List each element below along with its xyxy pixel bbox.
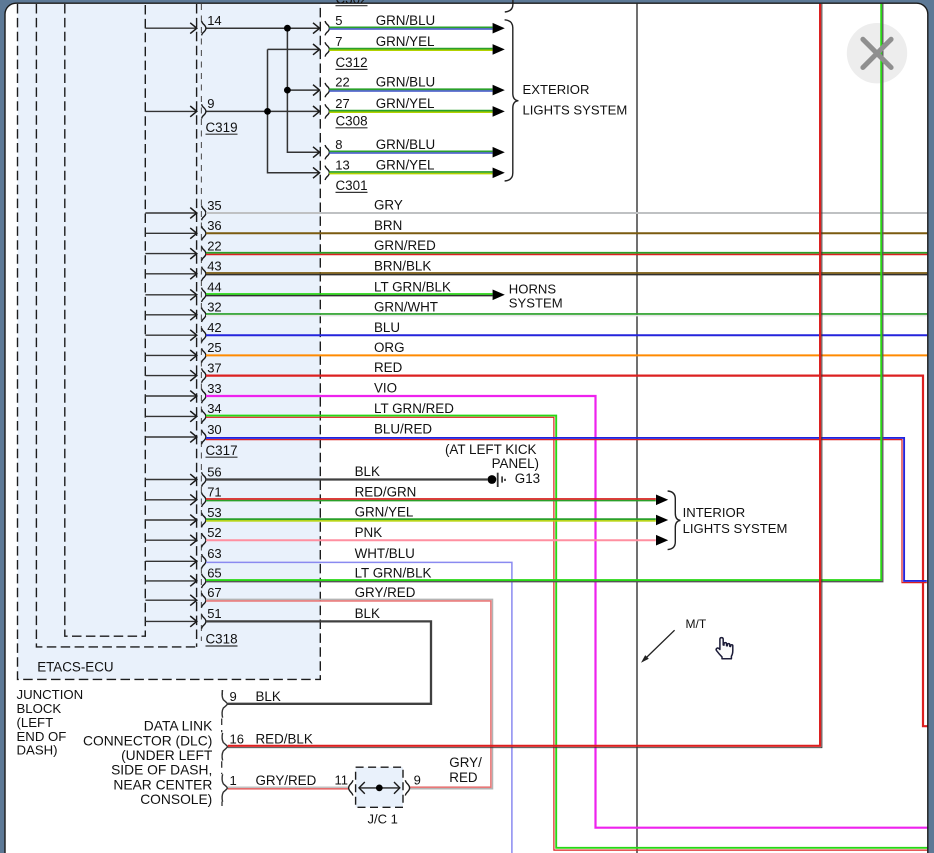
connector C319 pin 14	[145, 27, 196, 29]
wire PNK pin 52	[206, 539, 656, 541]
svg-text:7: 7	[335, 34, 342, 49]
wire GRN/YEL pin 53	[206, 518, 656, 520]
svg-text:32: 32	[207, 300, 221, 315]
connector C319 pin 9	[145, 110, 196, 112]
junction node on pin14 line	[284, 25, 291, 32]
inner module dashed box	[65, 4, 146, 636]
brace exterior lights system	[505, 20, 519, 181]
wire WHT/BLU pin 63	[206, 562, 512, 853]
arrow to exterior lights (8)	[493, 147, 505, 158]
svg-text:36: 36	[207, 218, 221, 233]
connector C319 pin 34	[145, 415, 196, 417]
svg-text:C317: C317	[206, 443, 238, 458]
svg-text:35: 35	[207, 198, 221, 213]
wire LT GRN/RED pin 34 red part	[206, 417, 927, 850]
svg-text:9: 9	[230, 689, 237, 704]
svg-text:(AT LEFT KICK: (AT LEFT KICK	[445, 442, 537, 457]
wire BLU/RED pin 30 red part	[206, 440, 927, 583]
svg-text:LIGHTS SYSTEM: LIGHTS SYSTEM	[523, 102, 628, 117]
wire BLU pin 42	[206, 334, 927, 336]
svg-text:CONNECTOR (DLC): CONNECTOR (DLC)	[83, 733, 212, 748]
svg-text:G13: G13	[515, 471, 540, 486]
connector pin 5 arrow+arc	[313, 23, 320, 34]
vertical gray rail M/T	[636, 4, 638, 853]
svg-text:ETACS-ECU: ETACS-ECU	[37, 660, 113, 675]
connector DLC dash above pin 9	[221, 690, 223, 695]
svg-text:RED: RED	[374, 360, 403, 375]
svg-text:CONSOLE): CONSOLE)	[140, 792, 212, 807]
svg-text:44: 44	[207, 280, 221, 295]
svg-text:C312: C312	[336, 55, 368, 70]
close button circle	[847, 23, 907, 83]
wire RED pin 37	[206, 376, 928, 727]
svg-text:J/C 1: J/C 1	[368, 812, 398, 827]
svg-text:SIDE OF DASH,: SIDE OF DASH,	[111, 763, 212, 778]
svg-text:51: 51	[207, 606, 221, 621]
wire BRN pin 36	[206, 232, 927, 234]
svg-text:BRN/BLK: BRN/BLK	[374, 258, 431, 273]
svg-text:LT GRN/RED: LT GRN/RED	[374, 401, 454, 416]
svg-text:GRN/BLU: GRN/BLU	[376, 137, 436, 152]
connector C319 pin 56	[145, 479, 196, 481]
connector DLC dashes pin16-pin1	[221, 761, 223, 774]
svg-text:52: 52	[207, 525, 221, 540]
connector DLC dash below pin 1	[221, 802, 223, 807]
svg-text:JUNCTION: JUNCTION	[17, 687, 84, 702]
svg-text:PANEL): PANEL)	[492, 456, 539, 471]
wire branch to C312 pin7	[268, 48, 319, 50]
connector C319 pin 63	[145, 560, 196, 562]
connector DLC dashes pin9-pin16	[221, 719, 223, 733]
svg-text:GRN/WHT: GRN/WHT	[374, 299, 438, 314]
connector C319 pin 22	[145, 253, 196, 255]
svg-text:22: 22	[207, 238, 221, 253]
svg-text:GRN/YEL: GRN/YEL	[376, 96, 435, 111]
svg-text:INTERIOR: INTERIOR	[683, 505, 746, 520]
svg-text:C318: C318	[206, 632, 238, 647]
arrow interior lights 3	[656, 535, 668, 546]
wire GRN/BLU pin 8	[329, 150, 492, 152]
svg-text:8: 8	[335, 137, 342, 152]
junction block outer dashed box	[18, 4, 321, 679]
connector C319 pin 37	[145, 375, 196, 377]
svg-text:GRN/YEL: GRN/YEL	[376, 157, 435, 172]
close button X	[863, 39, 891, 67]
J/C 1 right arrowhead	[394, 782, 400, 794]
svg-text:BLK: BLK	[355, 464, 380, 479]
svg-text:HORNS: HORNS	[509, 282, 557, 297]
junction node on pin9 line	[264, 108, 271, 115]
svg-text:1: 1	[230, 773, 237, 788]
wire ORG pin 25	[206, 354, 927, 356]
svg-text:GRY/RED: GRY/RED	[256, 773, 317, 788]
svg-text:WHT/BLU: WHT/BLU	[355, 546, 415, 561]
svg-text:GRY: GRY	[374, 198, 403, 213]
wire DLC pin16 RED/BLK black part	[228, 4, 822, 748]
svg-text:(UNDER LEFT: (UNDER LEFT	[121, 748, 213, 763]
svg-text:C308: C308	[336, 113, 368, 128]
wire branch to C308 pin22	[287, 89, 318, 91]
svg-text:11: 11	[335, 773, 349, 788]
highlight region ETACS area	[18, 4, 321, 679]
wire GRN/RED pin 22	[206, 252, 927, 254]
link vertical from pin9 node	[268, 49, 319, 172]
wire GRN/YEL pin 27	[329, 110, 492, 112]
svg-text:9: 9	[207, 96, 214, 111]
connector C319 pin 65	[145, 580, 196, 582]
svg-text:42: 42	[207, 320, 221, 335]
connector C319 pin 67	[145, 599, 196, 601]
arrow interior lights 2	[656, 515, 668, 526]
wire DLC pin16 RED/BLK red part	[228, 4, 820, 746]
svg-text:M/T: M/T	[686, 617, 707, 631]
wire BLK pin 56	[206, 478, 487, 480]
connector pin 27 arrow+arc	[313, 106, 320, 117]
wire GRN/WHT pin 32	[206, 313, 927, 315]
arrow to exterior lights (5)	[493, 23, 505, 34]
arrow interior lights 1	[656, 495, 668, 506]
connector C319 pin 51	[145, 620, 196, 622]
wire BRN/BLK pin 43	[206, 272, 927, 274]
svg-text:RED: RED	[449, 770, 478, 785]
connector C319 pin 53	[145, 519, 196, 521]
arrow to exterior lights (22)	[493, 85, 505, 96]
svg-text:5: 5	[335, 13, 342, 28]
M/T arrow	[645, 630, 675, 659]
svg-text:RED/BLK: RED/BLK	[256, 732, 313, 747]
svg-text:LT GRN/BLK: LT GRN/BLK	[355, 566, 432, 581]
wire C319 pin14 to C312 pin5 (black link)	[206, 27, 319, 29]
arrow to exterior lights (13)	[493, 168, 505, 179]
svg-text:DASH): DASH)	[17, 743, 58, 758]
svg-text:BRN: BRN	[374, 218, 402, 233]
wire BLK pin 51	[206, 621, 431, 704]
wire GRN/YEL pin 13	[329, 171, 492, 173]
svg-text:END OF: END OF	[17, 729, 67, 744]
svg-text:RED/GRN: RED/GRN	[355, 484, 417, 499]
connector C319 pin 32	[145, 314, 196, 316]
svg-text:63: 63	[207, 546, 221, 561]
connector pin 22 arrow+arc	[313, 85, 320, 96]
wire BLU/RED pin 30 blue part	[206, 438, 927, 581]
wire VIO pin 33	[206, 396, 927, 828]
svg-text:22: 22	[335, 75, 349, 90]
wire GRY/RED pin 67 red part	[206, 601, 491, 787]
J/C 1 junction node	[376, 785, 383, 792]
connector C319 pin 43	[145, 273, 196, 275]
connector C319 pin 25	[145, 354, 196, 356]
svg-text:GRN/BLU: GRN/BLU	[376, 75, 436, 90]
svg-text:30: 30	[207, 422, 221, 437]
svg-text:BLK: BLK	[256, 689, 281, 704]
svg-text:67: 67	[207, 585, 221, 600]
svg-text:53: 53	[207, 505, 221, 520]
svg-text:33: 33	[207, 381, 221, 396]
svg-text:14: 14	[207, 13, 221, 28]
svg-text:GRY/: GRY/	[449, 755, 482, 770]
svg-text:16: 16	[230, 732, 244, 747]
wire LT GRN/BLK pin 44	[206, 293, 493, 295]
arrow to exterior lights (27)	[493, 106, 505, 117]
junction connector J/C 1 box	[356, 767, 403, 807]
svg-text:DATA LINK: DATA LINK	[144, 719, 213, 734]
svg-text:GRN/YEL: GRN/YEL	[355, 505, 414, 520]
wire GRN/BLU pin 5	[329, 26, 492, 28]
ground G13 bars	[497, 473, 499, 487]
svg-text:65: 65	[207, 566, 221, 581]
svg-text:SYSTEM: SYSTEM	[509, 296, 563, 311]
svg-text:37: 37	[207, 360, 221, 375]
svg-text:GRY/RED: GRY/RED	[355, 585, 416, 600]
connector C319 pin 71	[145, 499, 196, 501]
svg-text:VIO: VIO	[374, 381, 397, 396]
connector C319 dashed line 1	[196, 4, 198, 647]
svg-text:25: 25	[207, 340, 221, 355]
svg-text:BLU: BLU	[374, 320, 400, 335]
svg-text:C319: C319	[206, 120, 238, 135]
connector C319 dashed line 2	[200, 4, 202, 641]
wire GRY pin 35	[206, 212, 927, 214]
svg-text:34: 34	[207, 401, 221, 416]
svg-text:BLOCK: BLOCK	[17, 701, 62, 716]
connector pin 13 arrow+arc	[313, 167, 320, 178]
J/C 1 left arrowhead	[359, 782, 365, 794]
wire DLC pin1 GRY/RED gray part	[228, 786, 349, 788]
connector pin 7 arrow+arc	[313, 44, 320, 55]
brace interior lights system	[668, 491, 681, 550]
connector DLC pin 16 brace nub	[222, 733, 228, 761]
svg-text:LT GRN/BLK: LT GRN/BLK	[374, 279, 451, 294]
svg-text:GRN/RED: GRN/RED	[374, 238, 436, 253]
svg-text:C301: C301	[336, 178, 368, 193]
connector C319 pin 33	[145, 395, 196, 397]
wire DLC pin9 BLK	[228, 703, 431, 705]
wire RED/GRN pin 71	[206, 498, 656, 500]
wire DLC pin1 GRY/RED red part	[228, 788, 349, 790]
ETACS-ECU middle dashed box	[36, 4, 196, 647]
svg-text:BLU/RED: BLU/RED	[374, 422, 432, 437]
svg-text:GRN/YEL: GRN/YEL	[376, 34, 435, 49]
svg-text:NEAR CENTER: NEAR CENTER	[113, 777, 212, 792]
svg-text:71: 71	[207, 485, 221, 500]
connector C319 pin 36	[145, 232, 196, 234]
svg-text:GRN/BLU: GRN/BLU	[376, 13, 436, 28]
svg-text:PNK: PNK	[355, 525, 383, 540]
mouse cursor	[716, 638, 733, 659]
J/C 1 pin 11 nub	[349, 780, 353, 795]
connector C319 pin 42	[145, 334, 196, 336]
wire LT GRN/BLK pin 65 green part	[206, 4, 881, 580]
wire GRY/RED pin 67 gray part	[206, 599, 493, 788]
svg-text:(LEFT: (LEFT	[17, 715, 54, 730]
J/C 1 internal bus	[360, 787, 399, 789]
J/C 1 pin 9 nub	[405, 780, 409, 795]
wire GRN/YEL pin 7	[329, 48, 492, 50]
svg-text:56: 56	[207, 464, 221, 479]
connector DLC pin 1 brace nub	[222, 774, 228, 802]
ground G13 dot	[488, 475, 497, 484]
brace fragment above exterior	[505, 0, 513, 12]
connector DLC pin 9 brace nub	[222, 690, 228, 718]
wire C319 pin9 to C308 pin27 (black link)	[206, 110, 319, 112]
svg-text:43: 43	[207, 259, 221, 274]
wire LT GRN/BLK pin 65 black part	[206, 4, 883, 582]
junction node branch pin22	[284, 87, 291, 94]
wire GRN/BLU pin 22	[329, 88, 492, 90]
link vertical from pin14 node	[287, 28, 318, 152]
connector pin 8 arrow+arc	[313, 147, 320, 158]
svg-text:ORG: ORG	[374, 340, 405, 355]
svg-text:13: 13	[335, 157, 349, 172]
svg-text:BLK: BLK	[355, 606, 380, 621]
arrow to exterior lights (7)	[493, 44, 505, 55]
svg-text:27: 27	[335, 96, 349, 111]
svg-text:EXTERIOR: EXTERIOR	[523, 82, 590, 97]
connector C319 pin 35	[145, 212, 196, 214]
connector C319 pin 52	[145, 539, 196, 541]
connector C319 pin 44	[145, 294, 196, 296]
svg-text:LIGHTS SYSTEM: LIGHTS SYSTEM	[683, 521, 788, 536]
svg-text:9: 9	[414, 772, 421, 787]
connector C319 pin 30	[145, 436, 196, 438]
arrow to horns system	[493, 290, 505, 301]
wire LT GRN/RED pin 34 green part	[206, 416, 927, 848]
